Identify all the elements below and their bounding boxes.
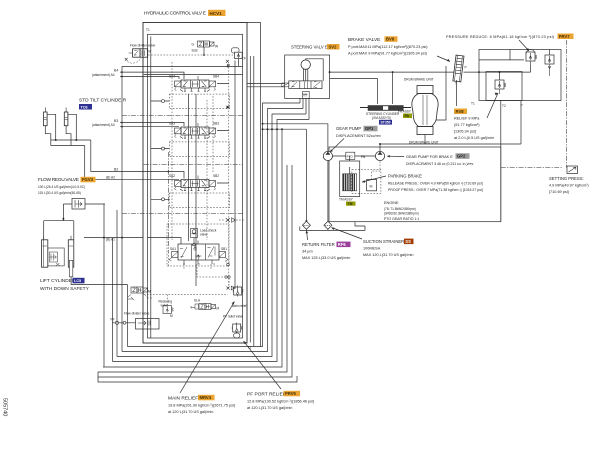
- svg-text:PRV7: PRV7: [559, 34, 571, 39]
- svg-text:PARKING BRAKE: PARKING BRAKE: [388, 174, 422, 179]
- group inner box: [486, 72, 522, 101]
- svg-text:SB4: SB4: [213, 75, 219, 79]
- leader arrow RV8: [487, 93, 498, 118]
- engine box: [329, 147, 501, 222]
- junction dot A1 line: [121, 237, 123, 239]
- steering valve SV2 box: [285, 55, 330, 98]
- leader arrow suction strainer: [332, 228, 363, 240]
- lift cylinder 1: [42, 236, 48, 267]
- spool valve section 2 (SA2/SB2) tilt: [169, 174, 219, 191]
- svg-text:BRAKE VALVE: BRAKE VALVE: [348, 37, 380, 43]
- leader arrow GP1: [330, 139, 344, 153]
- wire: extra outermost loop: [98, 376, 297, 382]
- svg-text:BV8: BV8: [386, 37, 395, 42]
- svg-text:W: W: [215, 45, 218, 49]
- svg-text:34 μm: 34 μm: [302, 250, 313, 254]
- leader arrow to BV8: [437, 56, 450, 62]
- leader arrow to PRV7: [519, 40, 529, 51]
- svg-text:12.8 MPa(130.52 kgf/cm ²){1856: 12.8 MPa(130.52 kgf/cm ²){1856.46 psi}: [247, 400, 315, 404]
- svg-text:RELIEF 9 MPa: RELIEF 9 MPa: [454, 117, 480, 121]
- solenoid valve SLA: [191, 299, 220, 311]
- wire: chain pilot line: [122, 114, 243, 116]
- down safety valve on lift cylinder: [48, 248, 64, 266]
- svg-text:SB3: SB3: [213, 122, 219, 126]
- svg-text:STEERING VALV E: STEERING VALV E: [291, 45, 328, 50]
- svg-text:PRV5: PRV5: [285, 391, 297, 396]
- svg-text:Main relief: Main relief: [232, 304, 247, 308]
- svg-text:PROOF PRESS.: OVER 7 MPa{71.38: PROOF PRESS.: OVER 7 MPa{71.38 kgf/cm ²}…: [388, 188, 483, 192]
- svg-text:ST350: ST350: [381, 121, 391, 125]
- wire: long return vertical: [500, 101, 502, 221]
- metering pump circle: [301, 59, 323, 81]
- svg-text:at 120 L(31.70 US gal)/min: at 120 L(31.70 US gal)/min: [168, 410, 213, 414]
- svg-text:GEAR PUMP: GEAR PUMP: [336, 126, 361, 131]
- svg-text:(B) A1: (B) A1: [106, 238, 115, 242]
- svg-text:SB1: SB1: [221, 247, 227, 251]
- svg-text:TC6: TC6: [81, 105, 88, 109]
- pilot arrowhead row1: [227, 106, 231, 109]
- wire: inner second vertical: [150, 37, 152, 339]
- spool valve section 4 (SA4/SB4): [169, 75, 219, 92]
- svg-text:M: M: [148, 50, 151, 54]
- wire: HCV1 outer box: [143, 23, 247, 344]
- wire: solid mid line: [144, 164, 243, 166]
- vent circle on line 3: [162, 198, 165, 201]
- svg-text:SS: SS: [405, 239, 411, 244]
- wire: to steering cylinder: [377, 72, 392, 104]
- wire: chain pilot vertical: [168, 152, 170, 252]
- svg-text:M: M: [148, 290, 151, 294]
- chip LC5 navy: [73, 278, 85, 284]
- wire: solid line across HCV: [122, 65, 243, 67]
- svg-text:LC5: LC5: [74, 279, 81, 283]
- svg-text:(S#83:60.3kW/2380rpm): (S#83:60.3kW/2380rpm): [384, 211, 419, 215]
- wire: A3 port line: [120, 126, 179, 128]
- chip TC6 navy: [79, 104, 92, 110]
- wire: SV2 step wire 3: [117, 114, 306, 357]
- svg-text:505740: 505740: [2, 398, 8, 416]
- svg-text:SUCTION STRAINER: SUCTION STRAINER: [363, 239, 404, 244]
- flow divider valve (top-left): [125, 44, 156, 64]
- wire: HCV to steering valve: [247, 84, 285, 87]
- junction dot: [62, 218, 64, 220]
- wire: engine box bottom to tank step: [355, 222, 365, 226]
- leader arrow PF relief: [244, 341, 282, 389]
- shaft line: [333, 155, 376, 157]
- relief valve with vent (top): [226, 48, 246, 67]
- chip RV8: [454, 109, 467, 115]
- setting press symbol: [567, 166, 578, 174]
- tank symbol: [300, 226, 365, 230]
- vent circle on line 2: [162, 147, 165, 150]
- svg-text:PF PORT RELIEF: PF PORT RELIEF: [247, 392, 286, 398]
- svg-text:TM: TM: [348, 202, 353, 206]
- wire: outer tank line wrapping right side: [247, 23, 261, 347]
- wire: parking brake pilot: [372, 161, 380, 180]
- wire: outermost loop bottom: [98, 165, 292, 377]
- dashed pilot box under valve 2: [169, 193, 229, 208]
- svg-text:PA ASSY: PA ASSY: [398, 110, 412, 114]
- flow regulator valve: [63, 199, 105, 210]
- svg-text:DISPLACEMENT 3.46 cc (0.211 cu: DISPLACEMENT 3.46 cc (0.211 cu. in.)/rev: [406, 162, 474, 166]
- wire TM top: [349, 156, 351, 174]
- wire: A4 port line: [120, 77, 179, 80]
- wire: BV8 down to drum brake: [436, 66, 457, 120]
- vent circle on line: [162, 100, 165, 103]
- chip FGV3: [81, 177, 96, 183]
- svg-text:PTO GEAR RATIO 1:1: PTO GEAR RATIO 1:1: [384, 217, 419, 221]
- wire: SV2 step wire 2: [122, 109, 303, 352]
- load check valve: [191, 229, 217, 246]
- svg-text:19.8 MPa(201.90 kgf/cm ²){2671: 19.8 MPa(201.90 kgf/cm ²){2671.75 psi}: [168, 404, 236, 408]
- wire: B2 port line: [143, 172, 184, 179]
- svg-text:SA1: SA1: [170, 247, 176, 251]
- svg-text:P: P: [465, 66, 467, 70]
- svg-text:[1305.34 psi]: [1305.34 psi]: [454, 130, 476, 134]
- svg-text:[710.69 psi]: [710.69 psi]: [549, 190, 569, 194]
- junction dots on group edge: [478, 71, 480, 73]
- wire: dashed line across top of HCV: [148, 54, 233, 56]
- wire through filters to tank: [306, 229, 328, 230]
- svg-text:SETTING PRESS:: SETTING PRESS:: [549, 176, 584, 181]
- svg-text:RELEASE PRESS.: OVER 4.9 MPa{: RELEASE PRESS.: OVER 4.9 MPa{50 kgf/cm ²…: [388, 182, 483, 186]
- wire: drum brake to pump line: [424, 135, 426, 145]
- svg-text:G: G: [192, 43, 195, 47]
- wire: right-side inner verticals: [250, 56, 254, 347]
- chip PRV7: [558, 34, 574, 40]
- svg-text:B4: B4: [114, 68, 118, 72]
- steering cylinder: [360, 106, 411, 111]
- group second top line: [479, 59, 524, 61]
- svg-text:(B) A2: (B) A2: [106, 175, 115, 179]
- solenoid valve (bottom left): [128, 287, 152, 300]
- svg-text:115 L(30.4 US gal)/min(50-65): 115 L(30.4 US gal)/min(50-65): [38, 191, 81, 195]
- reducing valve: [159, 300, 174, 319]
- svg-text:B2: B2: [114, 167, 118, 171]
- svg-text:HYDRAULIC CONTROL VALV E: HYDRAULIC CONTROL VALV E: [144, 11, 206, 17]
- sheet number vertical text: [2, 398, 8, 416]
- svg-text:SLA: SLA: [194, 299, 201, 303]
- tilt cylinder 1: [44, 108, 56, 146]
- svg-text:HCV1: HCV1: [210, 11, 223, 16]
- svg-text:RF6: RF6: [338, 242, 347, 247]
- wire: dashed pilot line above relief cluster: [144, 294, 228, 296]
- svg-text:T1: T1: [471, 102, 475, 106]
- svg-text:at 120 L(31.70 US gal)/min: at 120 L(31.70 US gal)/min: [247, 406, 292, 410]
- svg-text:100MESH: 100MESH: [363, 247, 381, 251]
- wire: pump pressure line to HCV: [263, 124, 328, 152]
- wire: GP1 suction down: [327, 161, 329, 222]
- svg-text:B3: B3: [114, 119, 118, 123]
- wire: SV2 second line: [330, 77, 378, 79]
- wire: A1 port line: [84, 238, 181, 244]
- svg-text:(attachment) A3: (attachment) A3: [92, 123, 115, 127]
- svg-text:SLB: SLB: [192, 49, 198, 53]
- wire: left return verticals: [103, 238, 105, 367]
- TM hatched block: [343, 174, 357, 191]
- group outer box: [479, 50, 561, 101]
- svg-text:RV8: RV8: [456, 109, 465, 114]
- motor box M: [367, 180, 377, 191]
- gear pump GP1: [323, 151, 332, 160]
- svg-text:M: M: [217, 307, 220, 311]
- svg-text:FGV3: FGV3: [82, 177, 94, 182]
- svg-text:100 L(26.4 US gal)/min(4.0-5.0: 100 L(26.4 US gal)/min(4.0-5.0C): [38, 185, 85, 189]
- junction dot on main line: [227, 65, 229, 67]
- wire: second solid line: [144, 74, 243, 76]
- relief valve RV8: [495, 80, 506, 94]
- wire: chain pilot line 2: [122, 213, 243, 215]
- svg-text:TM ASSY: TM ASSY: [339, 198, 354, 202]
- svg-text:SV2: SV2: [329, 44, 338, 49]
- wire: HCV1 inner box: [148, 34, 243, 338]
- svg-text:(78: 71.8kW/2450rpm): (78: 71.8kW/2450rpm): [384, 207, 416, 211]
- TM assy box: [340, 161, 360, 197]
- junction dots B4/A4: [121, 71, 123, 73]
- wire: lift group to HCV: [71, 277, 127, 285]
- wire: down to lift cylinders: [44, 219, 74, 240]
- check symbol under valve1: [227, 286, 235, 290]
- svg-text:LIFT CYLINDER: LIFT CYLINDER: [40, 278, 76, 284]
- svg-text:MAX 120 L(31.70 US gal)/min: MAX 120 L(31.70 US gal)/min: [363, 253, 413, 257]
- svg-text:PF: PF: [111, 318, 115, 322]
- svg-text:MAIN RELIEF: MAIN RELIEF: [168, 396, 198, 402]
- svg-text:MRV4: MRV4: [200, 395, 212, 400]
- svg-text:(attachment) A4: (attachment) A4: [92, 73, 115, 77]
- dashed pilot box under valve 3: [169, 142, 229, 157]
- PF port relief valve: [231, 323, 242, 339]
- svg-text:Flow divider valve: Flow divider valve: [124, 312, 150, 316]
- wire: tilt lines down to B2/A2: [85, 140, 143, 179]
- wire: tilt cylinders to valve ports: [51, 140, 91, 146]
- wire: vertical from pressure line down: [103, 129, 282, 367]
- svg-text:T2: T2: [502, 104, 506, 108]
- tilt cylinder 2: [64, 108, 76, 146]
- suction strainer diamond: [324, 221, 332, 229]
- connector circles under valve1: [225, 276, 227, 278]
- wire: valve1 down pipes: [169, 252, 224, 277]
- PTO box: [346, 152, 355, 159]
- svg-text:4.9 MPa(49.97 kgf/cm²): 4.9 MPa(49.97 kgf/cm²): [549, 184, 589, 188]
- junction dots: [329, 71, 331, 73]
- svg-text:at 2.0 L(0.5 US gal)/min: at 2.0 L(0.5 US gal)/min: [454, 136, 494, 140]
- svg-text:M: M: [370, 185, 373, 189]
- wire: P port down to pump line: [380, 101, 521, 152]
- chain wire right side: [501, 40, 567, 168]
- svg-text:A port:MAX 9 MPa{91.77 kgf/cm²: A port:MAX 9 MPa{91.77 kgf/cm²}(1305.34 …: [348, 52, 428, 56]
- dashed box around valve 1: [167, 224, 229, 266]
- dashed parking brake box: [352, 170, 381, 194]
- wire: flow regulator to A1 port: [63, 204, 104, 238]
- svg-text:MAX 125 L(33.0 US gal)/min: MAX 125 L(33.0 US gal)/min: [302, 256, 350, 260]
- svg-text:DISPLACEMENT 52cc/rev: DISPLACEMENT 52cc/rev: [336, 134, 381, 138]
- return filter diamond: [302, 221, 310, 229]
- wire: SV2 to brake valve P line: [330, 71, 455, 73]
- wire: internal vertical ladder: [195, 94, 197, 286]
- leader arrow return filter: [306, 231, 309, 241]
- svg-text:PRESSURE REDUCE: 6 MPa{61.18 k: PRESSURE REDUCE: 6 MPa{61.18 kgf/cm ²}(8…: [446, 35, 555, 39]
- leader arrow parking brake: [362, 176, 386, 182]
- wire: SV2 step wire 1: [128, 103, 301, 347]
- svg-text:T1: T1: [146, 28, 150, 32]
- svg-text:SA3: SA3: [169, 122, 175, 126]
- svg-text:FLOW REGU.VALVE: FLOW REGU.VALVE: [38, 177, 79, 183]
- svg-text:(XM ASSY'D): (XM ASSY'D): [372, 116, 391, 120]
- wires inside group: [464, 50, 550, 81]
- svg-text:P port:MAX11 MPa{112.17 kgf/cm: P port:MAX11 MPa{112.17 kgf/cm²}(870.23 …: [348, 45, 428, 49]
- check valves on pilot line: [226, 218, 235, 223]
- svg-text:ENGINE: ENGINE: [384, 201, 399, 205]
- wire: SV2 step wire 4: [113, 120, 310, 362]
- chip BV8: [385, 36, 398, 42]
- chip SV2: [327, 44, 340, 50]
- svg-text:GP1: GP1: [365, 126, 374, 131]
- wire: return line to filter: [305, 129, 307, 221]
- svg-text:GP2: GP2: [457, 154, 466, 159]
- chip SC7 navy: [379, 120, 392, 125]
- svg-text:RETURN FILTER: RETURN FILTER: [302, 242, 335, 247]
- wire: outer loop bottom: [98, 165, 287, 372]
- spool valve section 3 (SA3/SB3): [169, 122, 219, 139]
- chip TM olive: [346, 202, 356, 206]
- svg-text:SB2: SB2: [213, 174, 219, 178]
- svg-text:valve: valve: [200, 233, 208, 237]
- chip HCV1: [208, 10, 226, 16]
- svg-text:PB: PB: [361, 155, 365, 159]
- svg-text:GEAR PUMP FOR BRAK E: GEAR PUMP FOR BRAK E: [406, 155, 453, 159]
- svg-text:(91.77 kgf/cm²): (91.77 kgf/cm²): [454, 123, 480, 127]
- wire: SV2 ports down: [300, 98, 309, 119]
- steering spool: [282, 81, 322, 99]
- main relief valve: [232, 286, 247, 309]
- leader arrow GP2: [387, 155, 404, 157]
- svg-text:STD TILT CYLINDE R: STD TILT CYLINDE R: [79, 98, 127, 104]
- wire: A2 port line: [143, 178, 179, 180]
- svg-text:WITH DOWN SAFETY: WITH DOWN SAFETY: [40, 286, 90, 292]
- pressure reducing valve PRV7: [526, 50, 537, 66]
- svg-text:Flow divider valve: Flow divider valve: [130, 44, 156, 48]
- wire: B3 port line: [120, 123, 184, 127]
- flow divider valve (bottom): [111, 312, 160, 330]
- junction dots on pressure line: [262, 128, 264, 130]
- svg-text:DRUM BRAKE UNIT: DRUM BRAKE UNIT: [404, 78, 434, 82]
- wire: B4 port line: [120, 72, 184, 79]
- brake valve BV8 symbol: [453, 55, 464, 82]
- lift cylinder 2: [68, 236, 74, 277]
- solenoid valve SLB: [192, 41, 219, 55]
- spool valve section 1 (SA1/SB1) lift: [169, 241, 228, 265]
- leader arrow main relief: [180, 302, 235, 394]
- svg-text:SA2: SA2: [169, 174, 175, 178]
- gear pump GP2: [375, 151, 384, 160]
- wire: valve right-side stubs: [217, 84, 229, 184]
- dashed pilot box under valve 4: [169, 94, 229, 109]
- svg-text:PA: PA: [405, 114, 410, 118]
- junction dots B3/A3: [121, 122, 123, 124]
- svg-text:M: M: [170, 314, 173, 318]
- accumulator charge valve: [545, 55, 554, 76]
